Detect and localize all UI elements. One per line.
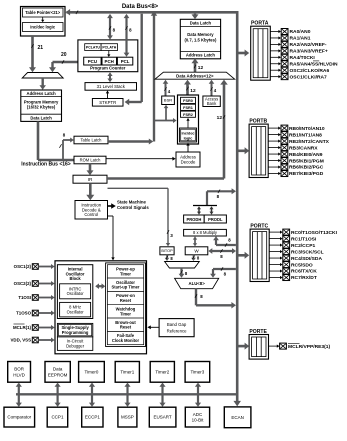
svg-text:Timer0: Timer0 <box>85 369 99 374</box>
svg-text:FSR2: FSR2 <box>183 113 193 117</box>
svg-text:Oscillator: Oscillator <box>67 310 85 315</box>
svg-text:Timer: Timer <box>120 311 131 316</box>
svg-text:HLVD: HLVD <box>13 372 25 377</box>
svg-text:EEPROM: EEPROM <box>48 372 68 377</box>
svg-text:Instruction Bus <16>: Instruction Bus <16> <box>21 162 71 168</box>
svg-text:Start-up Timer: Start-up Timer <box>112 285 140 290</box>
svg-text:12: 12 <box>190 88 196 94</box>
svg-text:Reference: Reference <box>167 328 187 333</box>
svg-text:Table Latch: Table Latch <box>81 137 103 142</box>
svg-text:RA1/AN1: RA1/AN1 <box>290 36 311 42</box>
svg-text:inc/dec: inc/dec <box>181 131 194 135</box>
svg-text:21: 21 <box>38 45 44 51</box>
svg-text:Timer1: Timer1 <box>120 369 134 374</box>
svg-text:Timer2: Timer2 <box>155 369 169 374</box>
svg-text:CCP1: CCP1 <box>51 415 64 420</box>
svg-text:Data Address<12>: Data Address<12> <box>176 73 214 78</box>
svg-text:RB3/CANRX: RB3/CANRX <box>289 145 318 151</box>
svg-text:ALU<8>: ALU<8> <box>188 281 205 286</box>
svg-text:31 Level Stack: 31 Level Stack <box>97 84 126 89</box>
svg-text:RC0/T1OSO/T13CKI: RC0/T1OSO/T13CKI <box>291 230 338 236</box>
svg-text:12: 12 <box>217 115 223 121</box>
svg-text:RC1/T1OSI: RC1/T1OSI <box>291 236 317 242</box>
svg-text:RB7/KBI3/PGD: RB7/KBI3/PGD <box>289 171 324 177</box>
svg-text:RC3/SCK/SCL: RC3/SCK/SCL <box>291 249 324 255</box>
svg-text:W: W <box>194 248 199 253</box>
svg-text:BOR: BOR <box>14 367 25 372</box>
svg-text:OSC2/CLKO/RA6: OSC2/CLKO/RA6 <box>290 68 330 74</box>
svg-text:RA3/AN3/VREF+: RA3/AN3/VREF+ <box>290 49 328 55</box>
svg-text:RB5/KBI1/PGM: RB5/KBI1/PGM <box>289 158 324 164</box>
svg-text:Reset: Reset <box>120 325 132 330</box>
svg-text:10-Bit: 10-Bit <box>192 417 205 422</box>
svg-text:ECAN: ECAN <box>231 415 244 420</box>
svg-text:PCH: PCH <box>105 59 114 64</box>
svg-text:PCLATH: PCLATH <box>102 46 116 50</box>
svg-text:RC4/SDI/SDA: RC4/SDI/SDA <box>291 256 322 262</box>
svg-text:RC6/TX/CK: RC6/TX/CK <box>291 269 317 275</box>
svg-text:MCLR(1): MCLR(1) <box>13 325 32 330</box>
svg-text:MCLR/VPP/RE3(1): MCLR/VPP/RE3(1) <box>288 344 330 350</box>
svg-text:Timer3: Timer3 <box>190 369 204 374</box>
svg-text:3: 3 <box>170 233 173 238</box>
svg-text:RC7/RX/DT: RC7/RX/DT <box>291 275 317 281</box>
svg-text:Address: Address <box>180 154 196 159</box>
svg-text:Data Bus<8>: Data Bus<8> <box>122 4 159 10</box>
svg-text:RC5/SDO: RC5/SDO <box>291 262 313 268</box>
svg-text:PRODL: PRODL <box>208 217 223 222</box>
svg-text:RA5/AN4/SS/HLVDIN: RA5/AN4/SS/HLVDIN <box>290 61 338 67</box>
svg-text:Data Memory: Data Memory <box>187 32 214 37</box>
svg-text:T1OSO: T1OSO <box>16 311 31 316</box>
svg-text:RA0/AN0: RA0/AN0 <box>290 29 311 35</box>
svg-text:(0.7, 1.5 Kbytes): (0.7, 1.5 Kbytes) <box>184 38 216 43</box>
svg-text:Oscillator: Oscillator <box>67 291 85 296</box>
svg-text:Program Memory: Program Memory <box>24 99 59 104</box>
svg-text:Block: Block <box>70 276 82 281</box>
svg-text:OSC2(2): OSC2(2) <box>14 281 32 286</box>
svg-text:BITOP: BITOP <box>161 249 173 253</box>
svg-text:ADC: ADC <box>193 412 203 417</box>
svg-text:RC2/CCP1: RC2/CCP1 <box>291 243 315 249</box>
svg-text:Data Latch: Data Latch <box>30 115 52 120</box>
svg-text:RA2/AN2/VREF-: RA2/AN2/VREF- <box>290 42 327 48</box>
svg-text:IR: IR <box>88 177 93 182</box>
svg-text:RB0/INT0/AN10: RB0/INT0/AN10 <box>289 126 325 132</box>
svg-text:Band Gap: Band Gap <box>167 322 187 327</box>
svg-text:Address Latch: Address Latch <box>186 53 216 58</box>
svg-text:Program Counter: Program Counter <box>90 66 126 71</box>
svg-text:PCLATU: PCLATU <box>86 46 100 50</box>
svg-text:STKPTR: STKPTR <box>99 100 116 105</box>
svg-text:Debugger: Debugger <box>66 344 85 349</box>
svg-text:Control: Control <box>84 212 98 217</box>
svg-text:MSSP: MSSP <box>121 415 134 420</box>
svg-text:State Machine: State Machine <box>117 200 147 205</box>
svg-text:ECCP1: ECCP1 <box>85 415 101 420</box>
svg-text:Table Pointer<21>: Table Pointer<21> <box>25 10 61 15</box>
svg-text:VDD, VSS: VDD, VSS <box>11 338 32 343</box>
svg-text:ROM Latch: ROM Latch <box>80 157 101 162</box>
svg-text:Control Signals: Control Signals <box>117 205 149 210</box>
svg-text:RB2/INT2/CANTX: RB2/INT2/CANTX <box>289 139 330 145</box>
svg-text:EUSART: EUSART <box>154 415 172 420</box>
svg-text:PRODH: PRODH <box>187 217 202 222</box>
svg-text:Comparator: Comparator <box>7 415 31 420</box>
svg-text:(16/32 Kbytes): (16/32 Kbytes) <box>27 105 56 110</box>
svg-text:OSC1/CLKI/RA7: OSC1/CLKI/RA7 <box>290 74 328 80</box>
svg-text:Timer: Timer <box>120 271 131 276</box>
svg-text:12: 12 <box>198 65 204 71</box>
svg-text:FSR0: FSR0 <box>183 99 193 103</box>
svg-text:Bank: Bank <box>207 101 217 106</box>
svg-text:FSR1: FSR1 <box>183 106 193 110</box>
svg-text:T1OSI: T1OSI <box>18 295 31 300</box>
svg-text:Data Latch: Data Latch <box>190 20 212 25</box>
svg-text:Reset: Reset <box>120 298 132 303</box>
svg-text:BSR: BSR <box>164 98 172 103</box>
svg-text:RB1/INT1/AN8: RB1/INT1/AN8 <box>289 132 322 138</box>
svg-text:RB6/KBI2/PGC: RB6/KBI2/PGC <box>289 165 324 171</box>
svg-text:logic: logic <box>184 136 193 140</box>
svg-text:Programming: Programming <box>62 330 89 335</box>
svg-text:RA4/T0CKI: RA4/T0CKI <box>290 55 316 61</box>
svg-text:Clock Monitor: Clock Monitor <box>112 338 140 343</box>
svg-text:PCL: PCL <box>121 59 130 64</box>
svg-text:8 x 8 Multiply: 8 x 8 Multiply <box>193 230 218 235</box>
svg-text:PCU: PCU <box>88 59 97 64</box>
svg-text:Decode: Decode <box>181 160 196 165</box>
svg-text:OSC1(2): OSC1(2) <box>14 264 32 269</box>
svg-text:Data: Data <box>53 367 63 372</box>
svg-text:RB4/KBI0/AN9: RB4/KBI0/AN9 <box>289 152 323 158</box>
svg-text:Address Latch: Address Latch <box>27 91 57 96</box>
svg-text:20: 20 <box>61 52 67 58</box>
svg-text:inc/dec logic: inc/dec logic <box>30 25 56 30</box>
